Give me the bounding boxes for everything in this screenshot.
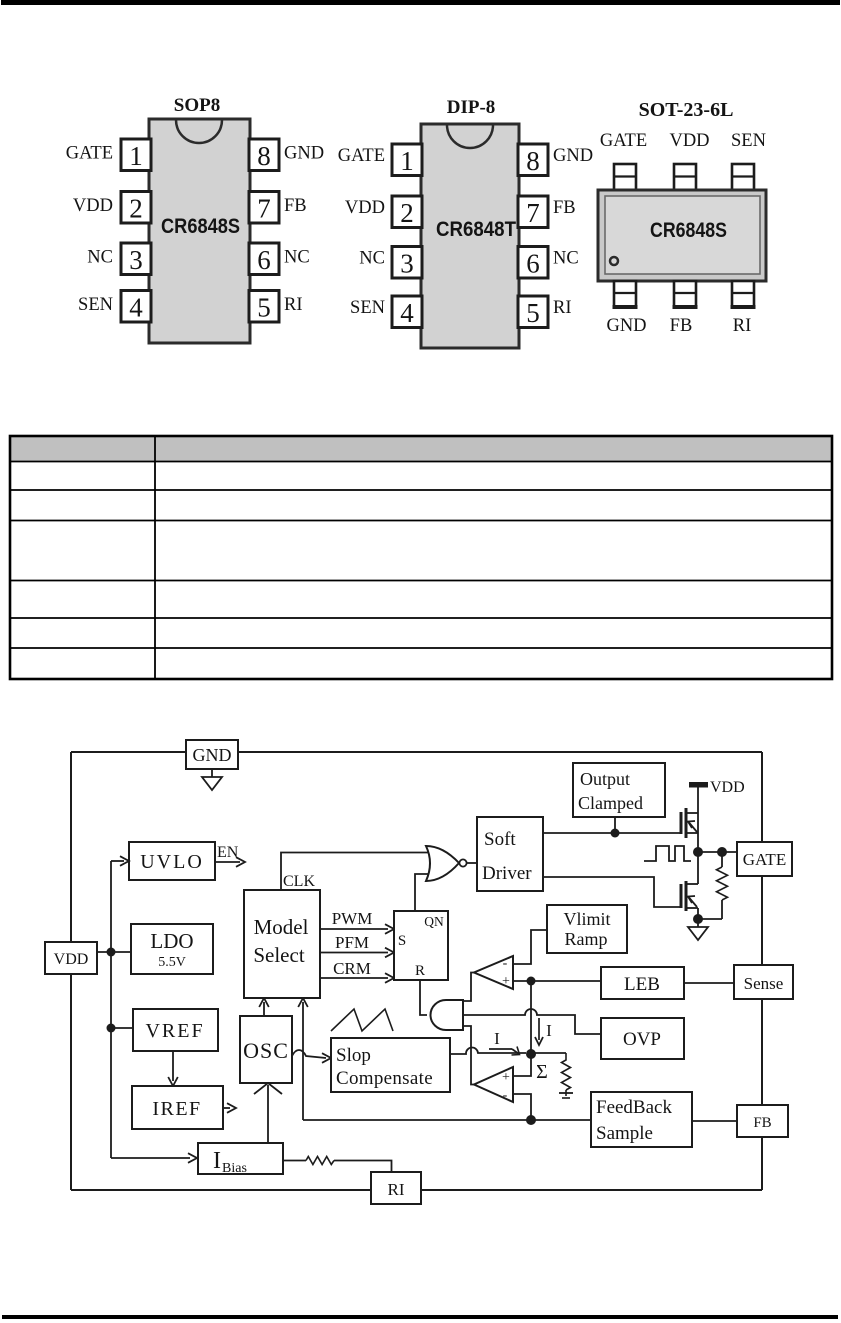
node FB box bbox=[737, 1105, 788, 1137]
block OSC bbox=[240, 1016, 292, 1083]
svg-text:I: I bbox=[546, 1021, 552, 1040]
svg-text:Driver: Driver bbox=[482, 863, 532, 884]
junction dot VDD rail bbox=[107, 948, 116, 957]
pin description table bbox=[10, 436, 832, 462]
svg-text:6: 6 bbox=[526, 249, 540, 279]
wire QN output up to NOR input bbox=[415, 874, 429, 911]
svg-text:CLK: CLK bbox=[283, 873, 315, 890]
power VDD bar bbox=[689, 782, 708, 788]
svg-text:R: R bbox=[415, 963, 425, 979]
svg-text:2: 2 bbox=[129, 194, 143, 224]
svg-text:Select: Select bbox=[253, 943, 304, 967]
current label I with arrow (vertical) bbox=[538, 1018, 540, 1040]
svg-text:QN: QN bbox=[424, 914, 444, 929]
wire VDD box to LDO bbox=[97, 951, 131, 953]
wire arrow into UVLO bbox=[111, 860, 124, 862]
DIP-8 pin 6 box bbox=[518, 247, 548, 279]
block Output Clamped bbox=[573, 763, 665, 817]
flip-flop S/R latch U-FF bbox=[394, 911, 448, 980]
svg-text:4: 4 bbox=[129, 293, 143, 323]
svg-text:UVLO: UVLO bbox=[140, 851, 204, 873]
wire arrow OSC to Model Select (left) bbox=[263, 1002, 265, 1016]
wire NOR output to Soft Driver bbox=[467, 862, 477, 864]
svg-text:FB: FB bbox=[284, 196, 307, 216]
SOP8 IC body U-SOP bbox=[149, 119, 250, 343]
svg-text:8: 8 bbox=[526, 146, 540, 176]
block LEB bbox=[601, 967, 684, 999]
wire rail to VREF bbox=[111, 1027, 133, 1029]
DIP-8 notch bbox=[447, 125, 493, 148]
svg-text:3: 3 bbox=[400, 249, 414, 279]
svg-text:GND: GND bbox=[553, 146, 593, 166]
gate AND (mirrored, output to R) bbox=[431, 1000, 464, 1030]
svg-text:+: + bbox=[502, 1070, 510, 1085]
svg-text:CR6848T: CR6848T bbox=[436, 218, 516, 241]
block Soft Driver bbox=[477, 817, 543, 891]
resistor pull-down on GATE bbox=[721, 852, 723, 867]
wire midpoint to GATE box bbox=[698, 851, 737, 853]
svg-text:+: + bbox=[502, 974, 510, 989]
waveform sawtooth bbox=[331, 1009, 393, 1031]
svg-text:Slop: Slop bbox=[336, 1045, 371, 1066]
svg-text:S: S bbox=[398, 933, 406, 949]
transistor Q1 upper NMOS bbox=[680, 812, 683, 834]
wire AND input 2 from OVP (with hop) bbox=[463, 1009, 601, 1034]
wire: outer frame top (GND rail) bbox=[71, 751, 762, 753]
SOT-23 IC body inner bbox=[605, 196, 760, 274]
svg-text:SEN: SEN bbox=[78, 295, 113, 315]
junction dot sense line bbox=[527, 977, 536, 986]
svg-text:Compensate: Compensate bbox=[336, 1068, 433, 1089]
DIP-8 pin 4 box bbox=[392, 296, 422, 328]
node VDD box bbox=[45, 942, 97, 974]
block Model Select bbox=[244, 890, 320, 998]
svg-text:6: 6 bbox=[257, 245, 271, 275]
wire Slop Compensate output (with hop) to sum node bbox=[450, 1047, 526, 1054]
svg-text:3: 3 bbox=[129, 245, 143, 275]
node GND box bbox=[186, 740, 238, 769]
node GATE box bbox=[737, 842, 792, 876]
wire: outer frame right rail bbox=[761, 752, 763, 1190]
svg-text:LDO: LDO bbox=[150, 929, 193, 953]
svg-text:Sample: Sample bbox=[596, 1123, 653, 1144]
junction dot under Output Clamped bbox=[611, 829, 620, 838]
svg-text:SOT-23-6L: SOT-23-6L bbox=[639, 99, 734, 121]
SOT-23 bottom pin RI bbox=[732, 281, 754, 307]
SOP8 pin 5 box bbox=[249, 291, 279, 323]
svg-text:VDD: VDD bbox=[669, 131, 709, 151]
svg-text:SEN: SEN bbox=[350, 298, 385, 318]
svg-text:DIP-8: DIP-8 bbox=[447, 97, 496, 118]
block Slop Compensate bbox=[331, 1038, 450, 1092]
wire Soft Driver bottom output to lower FET gate bbox=[543, 877, 680, 907]
svg-text:GATE: GATE bbox=[66, 144, 113, 164]
block LDO 5.5V bbox=[131, 924, 213, 974]
wire arrow rail into IBias bbox=[111, 1157, 190, 1159]
wire R input from AND gate bbox=[420, 980, 427, 1015]
block VREF bbox=[133, 1009, 218, 1051]
svg-text:NC: NC bbox=[359, 249, 385, 269]
svg-text:GATE: GATE bbox=[338, 146, 385, 166]
svg-text:LEB: LEB bbox=[624, 974, 660, 995]
svg-text:VDD: VDD bbox=[54, 951, 89, 968]
svg-text:I: I bbox=[494, 1029, 500, 1048]
wire arrow CRM Model Select to flip-flop bbox=[320, 977, 388, 979]
junction dot FB line bbox=[526, 1115, 536, 1125]
junction dot at VREF tap bbox=[107, 1024, 116, 1033]
wire CLK from Model Select top to NOR input bbox=[281, 853, 431, 891]
svg-text:VDD: VDD bbox=[345, 198, 385, 218]
svg-text:8: 8 bbox=[257, 141, 271, 171]
svg-text:-: - bbox=[503, 1088, 508, 1103]
wire arrow from IBias up into OSC bbox=[267, 1085, 269, 1143]
svg-text:GATE: GATE bbox=[743, 850, 786, 869]
wire FB sample line bbox=[303, 1119, 591, 1121]
svg-text:Soft: Soft bbox=[484, 829, 516, 850]
ground symbol at sum resistor bbox=[565, 1090, 567, 1096]
SOP8 pin 2 box bbox=[121, 192, 151, 224]
wire comparator plus input to LEB bbox=[513, 980, 601, 982]
gate NOR (OR+bubble) driving Soft Driver bbox=[426, 846, 459, 881]
wire lower comparator output to AND input 3 bbox=[463, 1026, 474, 1085]
svg-text:Output: Output bbox=[580, 769, 630, 789]
SOT-23 bottom pin GND bbox=[614, 281, 636, 307]
wire EN arrow out of UVLO bbox=[215, 861, 240, 863]
resistor RI squiggle wire bbox=[283, 1160, 306, 1162]
top rule bar bbox=[1, 0, 840, 5]
svg-text:OVP: OVP bbox=[623, 1029, 661, 1050]
SOT-23 top pin SEN bbox=[732, 164, 754, 190]
block I Bias bbox=[198, 1143, 283, 1174]
SOT-23 pin-1 dot bbox=[610, 257, 618, 265]
svg-text:PFM: PFM bbox=[335, 933, 369, 952]
wire sense signal vertical bbox=[530, 981, 532, 1054]
wire: outer frame bottom rail bbox=[71, 1189, 762, 1191]
wire comparator output to AND input 1 bbox=[463, 973, 474, 1002]
svg-text:RI: RI bbox=[284, 295, 303, 315]
svg-text:GND: GND bbox=[193, 745, 232, 765]
svg-text:7: 7 bbox=[257, 194, 271, 224]
svg-text:IREF: IREF bbox=[152, 1098, 201, 1120]
wire arrow VREF to IREF bbox=[172, 1051, 174, 1081]
svg-text:RI: RI bbox=[388, 1180, 405, 1199]
DIP-8 pin 7 box bbox=[518, 196, 548, 228]
wire Output Clamped to driver wire bbox=[614, 817, 616, 833]
junction dot FET midpoint bbox=[693, 847, 703, 857]
block FeedBack Sample bbox=[591, 1092, 692, 1147]
DIP-8 pin 2 box bbox=[392, 196, 422, 228]
SOT-23 top pin VDD bbox=[674, 164, 696, 190]
svg-text:RI: RI bbox=[733, 316, 752, 336]
svg-text:NC: NC bbox=[553, 249, 579, 269]
wire VDD to upper FET drain bbox=[697, 787, 699, 852]
wire Vlimit Ramp to comparator minus input bbox=[513, 930, 547, 964]
svg-text:VDD: VDD bbox=[73, 196, 113, 216]
svg-text:5: 5 bbox=[257, 293, 271, 323]
svg-text:EN: EN bbox=[217, 844, 239, 861]
block IREF bbox=[132, 1086, 223, 1129]
DIP-8 pin 1 box bbox=[392, 144, 422, 176]
SOP8 pin 6 box bbox=[249, 243, 279, 275]
svg-text:5: 5 bbox=[526, 298, 540, 328]
wire sum node to lower comparator plus bbox=[513, 1054, 531, 1076]
wire lower comparator minus to FB line bbox=[513, 1094, 531, 1120]
svg-text:Sense: Sense bbox=[744, 974, 784, 993]
svg-text:PWM: PWM bbox=[332, 909, 373, 928]
SOP8 notch bbox=[176, 120, 222, 143]
svg-text:1: 1 bbox=[400, 146, 414, 176]
op-amp comparator U3 (current limit) bbox=[474, 956, 513, 989]
wire arrow PWM Model Select to flip-flop bbox=[320, 928, 388, 930]
ground symbol under GND bbox=[211, 769, 213, 777]
svg-text:7: 7 bbox=[526, 198, 540, 228]
svg-text:FeedBack: FeedBack bbox=[596, 1097, 672, 1118]
svg-text:NC: NC bbox=[87, 248, 113, 268]
svg-text:Vlimit: Vlimit bbox=[563, 909, 610, 929]
ground symbol below FETs bbox=[697, 919, 699, 927]
junction dot at gate resistor bbox=[717, 847, 727, 857]
resistor to ground at sum node bbox=[531, 1052, 566, 1054]
wire Soft Driver top output to upper FET gate bbox=[543, 832, 681, 834]
DIP-8 pin 3 box bbox=[392, 247, 422, 279]
SOT-23 top pin GATE bbox=[614, 164, 636, 190]
svg-text:CR6848S: CR6848S bbox=[161, 215, 240, 238]
svg-text:VREF: VREF bbox=[145, 1020, 204, 1042]
waveform square pulse bbox=[644, 846, 691, 861]
junction dot sum node bbox=[526, 1049, 536, 1059]
DIP-8 pin 8 box bbox=[518, 144, 548, 176]
svg-text:2: 2 bbox=[400, 198, 414, 228]
SOP8 pin 3 box bbox=[121, 243, 151, 275]
svg-text:GND: GND bbox=[606, 316, 646, 336]
node Sense box bbox=[734, 965, 793, 999]
SOT-23 IC body outer bbox=[598, 190, 766, 281]
transistor Q2 lower NMOS bbox=[680, 884, 683, 908]
wire arrow out of IREF bbox=[223, 1107, 230, 1109]
wire arrow PFM Model Select to flip-flop bbox=[320, 952, 388, 954]
wire: outer frame left rail bbox=[70, 752, 72, 1190]
bottom rule bar bbox=[2, 1315, 838, 1319]
wire LEB to Sense bbox=[684, 982, 734, 984]
svg-text:FB: FB bbox=[753, 1115, 771, 1131]
svg-text:Model: Model bbox=[254, 915, 309, 939]
svg-text:I: I bbox=[213, 1148, 221, 1174]
svg-text:SEN: SEN bbox=[731, 131, 766, 151]
DIP-8 IC body bbox=[421, 124, 519, 348]
svg-text:NC: NC bbox=[284, 248, 310, 268]
svg-text:FB: FB bbox=[553, 198, 576, 218]
SOP8 pin 8 box bbox=[249, 139, 279, 171]
block UVLO bbox=[129, 842, 215, 880]
svg-text:Ramp: Ramp bbox=[565, 929, 608, 949]
svg-text:OSC: OSC bbox=[243, 1038, 289, 1063]
svg-text:GATE: GATE bbox=[600, 131, 647, 151]
svg-text:VDD: VDD bbox=[710, 779, 745, 796]
svg-text:Bias: Bias bbox=[222, 1161, 247, 1176]
SOP8 pin 7 box bbox=[249, 192, 279, 224]
svg-text:CRM: CRM bbox=[333, 959, 371, 978]
svg-text:1: 1 bbox=[129, 141, 143, 171]
SOT-23 bottom pin FB bbox=[674, 281, 696, 307]
wire wavy OSC to Slop Compensate with arrow bbox=[292, 1050, 326, 1058]
svg-text:RI: RI bbox=[553, 298, 572, 318]
svg-text:FB: FB bbox=[670, 316, 693, 336]
svg-text:CR6848S: CR6848S bbox=[650, 219, 727, 242]
SOP8 pin 1 box bbox=[121, 139, 151, 171]
svg-text:SOP8: SOP8 bbox=[174, 95, 220, 116]
SOP8 pin 4 box bbox=[121, 291, 151, 323]
svg-text:4: 4 bbox=[400, 298, 414, 328]
svg-text:GND: GND bbox=[284, 144, 324, 164]
wire FeedBack Sample to FB pad bbox=[692, 1120, 737, 1122]
wire arrow feedback up to Model Select (right) bbox=[302, 1002, 304, 1120]
op-amp comparator U4 (PWM) bbox=[474, 1067, 513, 1102]
block Vlimit Ramp bbox=[547, 905, 627, 953]
svg-text:5.5V: 5.5V bbox=[158, 955, 186, 970]
DIP-8 pin 5 box bbox=[518, 296, 548, 328]
block OVP bbox=[601, 1018, 684, 1059]
svg-text:Σ: Σ bbox=[536, 1061, 548, 1083]
junction dot FET source/ground bbox=[693, 914, 703, 924]
svg-text:-: - bbox=[503, 956, 508, 971]
svg-text:Clamped: Clamped bbox=[578, 793, 643, 813]
node RI box bbox=[371, 1172, 421, 1204]
wire: VDD vertical rail bbox=[110, 861, 112, 1158]
